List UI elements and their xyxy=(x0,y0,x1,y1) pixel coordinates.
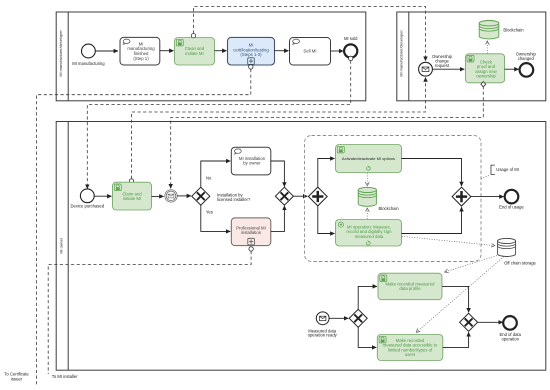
wire catch to gateway 1 xyxy=(177,195,191,197)
gateway P2 (parallel merge) xyxy=(452,187,471,206)
svg-text:MI manufacturer/developer: MI manufacturer/developer xyxy=(58,30,63,77)
svg-text:Activate/deactivate MI options: Activate/deactivate MI options xyxy=(342,156,395,161)
data assoc: check task to blockchain xyxy=(486,41,488,53)
task: Make recorded measured data accessible to limited number/types of users (green) xyxy=(377,335,443,361)
svg-text:operation ready: operation ready xyxy=(308,333,338,338)
svg-text:(Step 1): (Step 1) xyxy=(133,56,149,61)
end event: End of usage xyxy=(499,190,524,210)
group: Usage of MI (dashed box) xyxy=(305,136,482,262)
svg-text:MI owner: MI owner xyxy=(58,237,63,254)
task: MI manufacturing finished (Step 1) xyxy=(120,37,160,65)
wire start B to check task xyxy=(432,68,464,70)
end event: End of data operation xyxy=(499,316,521,342)
pool A: MI manufacturer/developer (top-left) xyxy=(56,12,366,101)
svg-text:licensed installer?: licensed installer? xyxy=(217,197,251,202)
message flow: certification task to Certificate issuer xyxy=(37,69,251,385)
svg-text:issuer: issuer xyxy=(11,376,23,381)
svg-text:changed: changed xyxy=(518,56,535,61)
task: MI operation: Measure, record and digitally sign measured data (green) xyxy=(336,220,402,247)
svg-text:data profile: data profile xyxy=(399,286,421,291)
annotation: Usage of MI xyxy=(481,165,519,179)
start event: Device purchased xyxy=(71,189,105,209)
message flow: Check proof task to message catch event xyxy=(171,86,484,188)
wire start to claim xyxy=(94,195,111,197)
svg-text:Sell MI: Sell MI xyxy=(303,49,316,54)
task: Sell MI xyxy=(290,38,331,66)
svg-text:by owner: by owner xyxy=(243,161,261,166)
task: Check proof and assign new ownership (green) xyxy=(465,54,504,83)
svg-text:Yes: Yes xyxy=(206,210,213,215)
datastore: Off chain storage xyxy=(498,238,537,265)
svg-text:initiate MI: initiate MI xyxy=(185,51,203,56)
wire P1 to activate task xyxy=(318,159,335,188)
svg-text:No: No xyxy=(206,175,212,180)
wire check task to end B xyxy=(505,68,519,70)
pool B: MI manufacturer/developer (top-right) xyxy=(397,12,546,101)
task: MI installation by owner xyxy=(231,147,270,175)
gateway G3 (XOR split) xyxy=(349,309,367,327)
task: Claim and initiate MI (green) xyxy=(113,182,152,210)
wire G3 to accessible task xyxy=(358,327,376,347)
wire task1 to clean task xyxy=(160,50,174,52)
data assoc: MI operation to blockchain xyxy=(366,208,368,219)
svg-text:(Steps 1-3): (Steps 1-3) xyxy=(240,52,262,57)
subprocess: Professional MI installation (pink) xyxy=(231,218,270,246)
gateway G1 (XOR split) xyxy=(192,175,251,214)
wire start to task1 xyxy=(95,50,118,52)
task: Make recorded measured data profile (green) xyxy=(378,273,442,300)
svg-text:Off chain storage: Off chain storage xyxy=(504,260,536,265)
data assoc: MI operation to off chain storage xyxy=(402,236,495,245)
wire accessible task to G4 xyxy=(443,332,469,347)
svg-text:measured data: measured data xyxy=(355,234,384,239)
wire G1 to MI installation by owner xyxy=(201,161,231,188)
wire start to G3 xyxy=(329,317,348,319)
svg-text:MI manufacturer/developer: MI manufacturer/developer xyxy=(399,30,404,77)
svg-text:Usage of MI: Usage of MI xyxy=(496,167,519,172)
svg-text:operation: operation xyxy=(501,337,519,342)
svg-text:To MI installer: To MI installer xyxy=(52,374,78,379)
data assoc: off chain storage to accessible task xyxy=(416,257,503,333)
svg-text:MI sold: MI sold xyxy=(344,36,358,41)
start event: MI manufacturing xyxy=(72,44,105,66)
wire activate task to P2 xyxy=(402,159,462,187)
data assoc: off chain storage to profile task xyxy=(445,255,499,272)
wire owner task to G2 xyxy=(271,161,285,187)
svg-text:Device purchased: Device purchased xyxy=(71,204,105,209)
end event: Ownership changed xyxy=(516,52,537,77)
message flow: Claim task to Ownership change request (from below) xyxy=(132,77,426,178)
wire profile task to G4 xyxy=(442,286,469,312)
subprocess: MI certification/testing (Steps 1-3) (blue) xyxy=(228,37,275,65)
gateway P1 (parallel split) xyxy=(308,187,327,206)
pool C: MI owner (bottom) xyxy=(56,122,546,371)
intermediate message catch event xyxy=(165,190,177,202)
wire G4 to end xyxy=(477,321,502,323)
wire G1 to Professional MI installation xyxy=(201,205,231,232)
end event: MI sold xyxy=(344,36,358,58)
task: Clean and initiate MI (green) xyxy=(175,38,215,66)
gateway G4 (XOR merge) xyxy=(460,313,478,331)
wire G3 to profile task xyxy=(358,286,377,309)
svg-text:ownership: ownership xyxy=(476,73,496,78)
gateway G2 (XOR merge) xyxy=(275,187,293,205)
svg-text:installation: installation xyxy=(241,230,262,235)
message flow: Professional MI installation to MI installer xyxy=(48,251,251,374)
wire sell to end xyxy=(331,50,344,52)
svg-text:End of usage: End of usage xyxy=(499,205,524,210)
svg-text:initiate MI: initiate MI xyxy=(123,196,141,201)
data assoc: activate task to blockchain xyxy=(366,173,368,186)
message start event: Measured data operation ready xyxy=(308,312,338,338)
wire P2 to end of usage xyxy=(471,196,504,198)
wire certification to sell xyxy=(275,50,289,52)
wire MI operation to P2 xyxy=(402,207,462,233)
blockchain datastore (usage group) xyxy=(358,187,399,211)
svg-text:Blockchain: Blockchain xyxy=(379,206,400,211)
task: Activate/deactivate MI options (green) xyxy=(336,145,402,173)
wire G2 to parallel gateway P1 xyxy=(293,195,307,197)
svg-text:users: users xyxy=(405,352,416,357)
message start event: Ownership change request xyxy=(419,54,453,76)
svg-text:MI manufacturing: MI manufacturing xyxy=(72,61,105,66)
svg-text:request: request xyxy=(435,63,450,68)
message flow: Clean task to Ownership change request (over top) xyxy=(194,7,426,61)
blockchain datastore (pool B) xyxy=(479,21,524,39)
wire P1 to MI operation task xyxy=(318,206,335,234)
wire claim to catch event xyxy=(152,195,164,197)
wire clean to certification xyxy=(215,50,227,52)
wire professional task to G2 xyxy=(271,206,285,232)
message flow: MI sold to Device purchased xyxy=(87,61,350,189)
svg-text:Blockchain: Blockchain xyxy=(503,27,524,32)
